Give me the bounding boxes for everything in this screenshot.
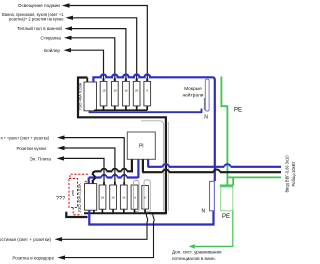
proposed device (red dashed breaker)	[69, 179, 78, 208]
svg-text:PE: PE	[234, 108, 242, 114]
svg-text:N: N	[204, 115, 208, 121]
breaker QF1 (upper panel)	[100, 81, 107, 106]
value labels: lower breaker ratings	[101, 195, 146, 199]
pin: QF1 output stub	[103, 106, 105, 110]
svg-text:16: 16	[114, 89, 118, 93]
wire: neutral from lower RCD bottom to lower N busbar	[89, 210, 213, 224]
pin: QF7 bottom stub	[112, 209, 114, 213]
breaker QF5 (upper panel)	[144, 81, 151, 106]
pin: breaker QF4 input stub	[136, 78, 138, 82]
svg-text:Гостиная (свет + розетки): Гостиная (свет + розетки)	[0, 237, 51, 242]
wire: circuit to туалет (from lower breaker QF8 top)	[64, 138, 125, 186]
svg-text:УЗО 40А 0,03А: УЗО 40А 0,03А	[78, 82, 83, 110]
arrow: Освещение лоджии	[62, 3, 70, 7]
svg-text:Доп. сист. уравнивания: Доп. сист. уравнивания	[172, 249, 222, 254]
wire: circuit to Розетки кухни (from lower breaker QF7 top)	[64, 148, 115, 186]
svg-text:16: 16	[102, 89, 106, 93]
svg-text:PE: PE	[222, 214, 230, 220]
svg-text:диф: диф	[70, 190, 74, 196]
pin: QF8 input stub	[123, 182, 125, 186]
wire: red dashed proposed connection (top)	[70, 174, 88, 178]
svg-text:розетка)+ 2 розетки на кухне: розетка)+ 2 розетки на кухне	[9, 17, 64, 22]
wire: phase feed to upper RCD (left L-run and drop from main switch)	[78, 78, 166, 214]
svg-text:я + туалет (свет + розетка): я + туалет (свет + розетка)	[1, 136, 50, 141]
wire: upper RCD output to phase bus	[94, 109, 96, 112]
conduit: channel at QF9	[134, 181, 139, 212]
svg-text:16: 16	[111, 195, 115, 199]
arrow: Гостиная	[55, 237, 63, 241]
symbol: cable break on Гостиная wire	[146, 213, 148, 222]
pin: QF7 input stub	[114, 182, 116, 186]
svg-text:Розетка в коридоре: Розетка в коридоре	[12, 255, 54, 260]
wire: bus left hook	[66, 212, 87, 217]
wire: circuit to Эл. Плита (from lower breaker QF6 top)	[63, 158, 104, 185]
svg-text:Теплый пол в ванной: Теплый пол в ванной	[17, 25, 63, 31]
pin: QF6 bottom stub	[101, 209, 103, 213]
wire: PE bar top link	[220, 185, 233, 187]
label: Доп. сист. уравнивания потенциалов в ванн.	[172, 249, 222, 261]
svg-text:потенциалов в ванн.: потенциалов в ванн.	[172, 256, 216, 261]
wire: PE to service entry	[227, 176, 281, 178]
arrow: Ванна/прихожая/кухня	[66, 16, 74, 20]
pin: QF2 output stub	[114, 106, 116, 110]
svg-text:УЗО 40А 0,03А: УЗО 40А 0,03А	[77, 183, 82, 212]
pin: QF5 output stub	[146, 106, 148, 110]
symbol: cable break on коридор wire	[153, 213, 155, 222]
wire: phase to service entry (hops over feed drop and N riser)	[143, 170, 281, 173]
arrow: Эл. Плита	[57, 156, 65, 160]
svg-text:Стиралка: Стиралка	[41, 36, 62, 41]
svg-text:16: 16	[122, 195, 126, 199]
wire: leader to upper N busbar	[203, 98, 205, 110]
svg-text:Pl: Pl	[139, 144, 143, 150]
pin: breaker QF5 input stub	[146, 78, 148, 82]
pin: breaker QF1 input stub	[103, 78, 105, 82]
busbar: upper N (wet neutrals)	[205, 79, 209, 111]
wire: circuit to Теплый пол в ванной (from breaker QF3 top)	[71, 29, 126, 79]
wire: neutral from upper RCD bottom to N busbar	[90, 109, 202, 113]
wire: circuit to Розетка в коридоре	[64, 222, 154, 258]
conduit: channel at QF10 (main switch)	[144, 180, 150, 212]
wire: PE bonding to bathroom	[193, 211, 233, 247]
breaker QF8 (lower panel)	[120, 185, 127, 209]
wire: circuit to Стиралка (from breaker QF2 top)	[71, 38, 115, 79]
conduit: gray channel around phase drop	[141, 121, 168, 211]
wire: phase tab into upper RCD top-left terminal	[86, 78, 88, 83]
svg-text:16: 16	[101, 195, 105, 199]
RCD lower УЗО 40А 0,03А body	[85, 184, 97, 211]
wire: circuit to Освещение лоджии (from breaker QF5 top)	[69, 6, 148, 79]
wire: meter neutral in from service entry	[148, 159, 149, 167]
pin: QF10 bottom stub	[144, 209, 146, 213]
breaker QF3 (upper panel)	[123, 81, 130, 106]
wire: circuit to Гостиная	[61, 222, 147, 240]
svg-text:Освещение лоджии: Освещение лоджии	[18, 3, 61, 8]
busbar: lower PE (thin green box)	[221, 187, 233, 211]
breaker QF6 (lower panel)	[99, 185, 106, 209]
wire: red dashed stub at RCD input	[85, 181, 89, 184]
arrow: Бойлер	[64, 48, 72, 52]
svg-text:нейтрали: нейтрали	[182, 91, 203, 98]
svg-text:Мокрые: Мокрые	[184, 86, 202, 92]
svg-text:Ввод ВВГ-0,66 3х10: Ввод ВВГ-0,66 3х10	[285, 155, 290, 193]
breaker QF7 (lower panel)	[110, 185, 117, 209]
wire: neutral along upper panel top with hops over breaker inputs, to N riser	[93, 75, 214, 182]
pin: QF4 output stub	[136, 106, 138, 110]
RCD upper УЗО 40А 0,03А body	[84, 82, 97, 111]
svg-text:25: 25	[135, 89, 139, 93]
svg-text:Робщ=10кВт: Робщ=10кВт	[291, 162, 296, 187]
pin: QF6 input stub	[103, 182, 105, 186]
wire: neutral tab into lower RCD top	[88, 178, 90, 185]
pin: breaker QF3 input stub	[125, 78, 127, 82]
arrow: bonding (green)	[189, 244, 195, 249]
wire: lower panel phase bus	[84, 212, 166, 214]
svg-text:16: 16	[124, 89, 128, 93]
svg-text:N: N	[201, 209, 205, 215]
pin: lower RCD bottom stub	[93, 210, 95, 213]
svg-text:Эл. Плита: Эл. Плита	[29, 156, 51, 161]
arrow: Розетка в коридоре	[58, 255, 66, 259]
value labels: upper breaker ratings	[102, 89, 148, 93]
breaker QF9 (lower panel)	[131, 185, 138, 209]
busbar: lower N	[210, 181, 215, 211]
pin: QF8 bottom stub	[123, 209, 125, 213]
breaker QF10 (lower panel)	[142, 186, 149, 210]
arrow: Стиралка	[64, 36, 72, 40]
arrow: туалет	[57, 135, 65, 139]
svg-text:???: ???	[56, 196, 65, 202]
pin: breaker QF2 input stub	[114, 78, 116, 82]
wire: meter phase out to lower RCD (hops over label wires)	[96, 159, 132, 171]
wire: PE riser with jog	[221, 77, 227, 186]
wire: circuit to Ванна/прихожая/кухня (from breaker QF4 top)	[72, 18, 137, 79]
wire: upper panel phase bus	[94, 109, 147, 111]
meter Pl body	[127, 132, 155, 159]
wire: neutral to service entry (hop over PE)	[148, 164, 281, 167]
wire: phase curl into lower RCD top (hop over neutral)	[93, 171, 96, 184]
arrow: Теплый пол в ванной	[65, 26, 73, 30]
arrow: Розетки кухни	[57, 146, 65, 150]
wire: PE drop to lower PE busbar	[232, 177, 234, 185]
breaker QF4 (upper panel)	[133, 81, 140, 106]
wire: meter phase in from service entry	[143, 159, 144, 172]
wire: circuit to Бойлер (from breaker QF1 top)	[70, 50, 104, 78]
label: Ванна, прихожая, кухня (свет +1 розетка)+ 2 розетки на кухне	[2, 12, 64, 22]
svg-text:Бойлер: Бойлер	[44, 47, 60, 53]
wire: red dashed proposed connection (bottom)	[73, 208, 81, 215]
label: Мокрые нейтрали	[182, 86, 203, 99]
breaker QF2 (upper panel)	[112, 81, 119, 106]
svg-text:Розетки кухни: Розетки кухни	[16, 146, 46, 151]
pin: QF9 bottom stub	[134, 209, 136, 213]
pin: QF3 output stub	[125, 106, 127, 110]
wire: meter neutral out to lower RCD (hops over label wires)	[89, 159, 139, 177]
